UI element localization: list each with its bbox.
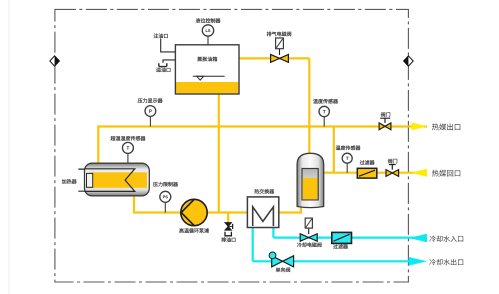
- wire: cooling inlet line: [273, 227, 427, 238]
- wire: drain stub: [227, 213, 229, 223]
- wire: tank bottom down-pipe: [218, 94, 220, 213]
- wire: heat-exchanger outlet to vessel bottom: [279, 206, 301, 213]
- arrow: cooling water inlet: [409, 234, 427, 243]
- arrow: hot return: [411, 169, 428, 177]
- cooling solenoid valve: [300, 218, 317, 241]
- boundary marker diamond left: [50, 56, 60, 66]
- boundary marker diamond right: [404, 56, 414, 66]
- cooling filter: [332, 232, 352, 243]
- label: hot outlet: [432, 123, 439, 130]
- pressure display P circle: [145, 106, 156, 127]
- exhaust solenoid valve: [271, 38, 289, 62]
- label: overflow port: [156, 68, 161, 72]
- label: pressure display: [138, 99, 143, 103]
- heat exchanger M: [253, 207, 274, 226]
- circulation pump: [181, 199, 207, 225]
- label: pressure limiter: [153, 182, 158, 186]
- wire: exhaust line tank to riser: [239, 57, 310, 59]
- tank level mark: [193, 76, 225, 80]
- label: cooling water inlet: [429, 236, 435, 242]
- expansion tank oil level: [176, 82, 238, 93]
- heater element terminals: [78, 169, 85, 191]
- wire: return junction riser: [333, 125, 335, 172]
- arrow: cooling water outlet: [409, 257, 428, 266]
- temp sensor T circle main: [319, 106, 329, 126]
- hot outlet valve: [379, 118, 391, 130]
- wire: vessel side to return line: [323, 172, 427, 174]
- label: temp sensor return: [336, 146, 341, 150]
- label: hot return: [432, 170, 439, 177]
- label: cooling filter: [333, 244, 338, 248]
- page edge artifact: [8, 0, 10, 294]
- vessel sight glass: [302, 169, 318, 200]
- drain valve: [225, 223, 233, 231]
- label: exhaust solenoid valve: [267, 32, 272, 37]
- level controller LS circle: [202, 25, 213, 46]
- label: over-temp sensor: [111, 136, 116, 141]
- overflow funnel: [159, 63, 167, 66]
- label: heater: [62, 179, 66, 184]
- fill port pipe: [161, 39, 176, 52]
- heater end block: [87, 173, 93, 187]
- vessel body: [297, 153, 324, 207]
- label: fill port: [154, 33, 159, 38]
- system boundary dash-dot frame: [55, 9, 409, 282]
- label: expansion tank: [198, 57, 203, 62]
- label: circulation pump: [179, 228, 183, 233]
- wire: left riser to heater: [97, 125, 99, 164]
- heater element outline: [85, 169, 135, 192]
- overflow port pipe: [163, 60, 175, 63]
- label: cooling water outlet: [429, 259, 435, 265]
- label: temp sensor main: [313, 99, 318, 103]
- wire: hot outlet through border: [411, 125, 427, 127]
- wire: cooling outlet line: [253, 227, 411, 261]
- return valve: [386, 165, 399, 177]
- wire: vessel top riser: [308, 58, 310, 153]
- check valve: [269, 252, 294, 267]
- return filter: [357, 168, 377, 178]
- label: check valve: [276, 268, 280, 273]
- label: cooling solenoid valve: [297, 242, 302, 247]
- over-temp sensor T circle: [122, 142, 133, 163]
- temp sensor T circle return: [342, 153, 352, 173]
- label: heat exchanger: [254, 189, 259, 194]
- label: drain port: [221, 237, 226, 242]
- expansion tank outline: [175, 45, 239, 94]
- arrow: hot outlet: [412, 122, 428, 130]
- wire: heater outlet to pump line: [133, 195, 248, 213]
- heater body: [85, 163, 150, 196]
- label: return valve: [388, 159, 392, 164]
- pressure limiter PS circle: [160, 191, 171, 212]
- label: level controller: [196, 18, 201, 23]
- heater oil band: [90, 172, 148, 188]
- label: return filter: [360, 160, 365, 164]
- wire: main hot-oil header y126: [98, 125, 411, 127]
- drain cup: [225, 232, 231, 236]
- label: hot outlet valve: [381, 112, 385, 117]
- expansion tank fill: [175, 45, 239, 94]
- heat exchanger box: [247, 197, 278, 228]
